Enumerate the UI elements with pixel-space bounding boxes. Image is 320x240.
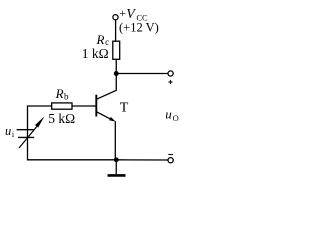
transistor T emitter with arrow [97, 112, 114, 121]
svg-text:1 kΩ: 1 kΩ [82, 46, 109, 61]
ground [115, 160, 117, 175]
wire emitter to ground rail [114, 121, 116, 160]
resistor Rc [113, 41, 120, 59]
svg-text:b: b [64, 92, 69, 102]
wire Vcc to Rc [115, 20, 117, 42]
signal source ui lower plate [18, 136, 34, 138]
svg-text:u: u [5, 124, 11, 138]
resistor Rb [52, 103, 72, 109]
svg-text:T: T [120, 100, 129, 115]
wire collector lead [97, 74, 117, 100]
svg-text:R: R [96, 32, 105, 47]
wire Rc to collector node [115, 59, 117, 74]
transistor T base bar [95, 95, 97, 117]
signal source ui upper plate [17, 129, 34, 131]
wire input left vertical [28, 105, 117, 159]
wire ground rail to output - terminal [116, 159, 168, 161]
svg-text:R: R [55, 86, 64, 101]
node emitter ground junction [114, 157, 119, 162]
output + terminal [168, 71, 173, 76]
svg-text:O: O [173, 113, 179, 123]
wire to output + terminal [116, 73, 168, 75]
wire Rb to input corner [28, 105, 52, 107]
node collector junction [114, 71, 119, 76]
label + polarity [169, 81, 173, 83]
output - terminal [168, 158, 173, 163]
svg-text:5 kΩ: 5 kΩ [48, 111, 75, 126]
label - polarity [168, 154, 173, 156]
Vcc supply terminal [113, 15, 118, 20]
svg-text:u: u [165, 107, 172, 122]
wire base to Rb [72, 105, 96, 107]
svg-text:(+12 V): (+12 V) [119, 20, 159, 34]
signal source ui arrow [19, 126, 37, 148]
svg-text:i: i [12, 130, 15, 139]
